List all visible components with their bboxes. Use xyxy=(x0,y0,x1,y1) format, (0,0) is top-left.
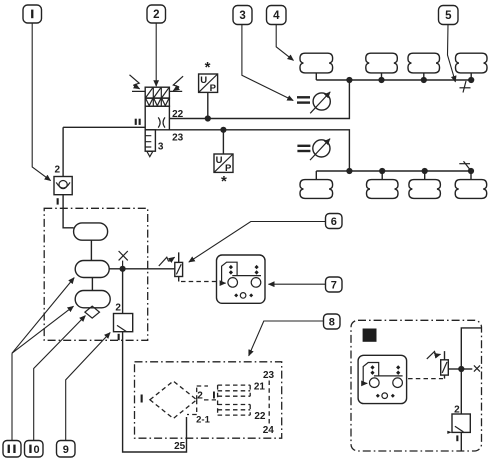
port label 1 of valve 9 xyxy=(118,334,120,340)
bellow reservoir a (item 11) xyxy=(74,223,108,240)
port label 1 of diamond xyxy=(141,395,143,403)
wire: riser to check valve xyxy=(62,127,64,176)
svg-text:22: 22 xyxy=(254,411,266,422)
solenoid valve 6 xyxy=(175,252,183,281)
svg-text:5: 5 xyxy=(445,10,452,22)
silencer 3 under valve 2 xyxy=(145,130,155,157)
wire: port 22 line xyxy=(169,80,349,119)
solenoid valve block 2: pilot band row 1 xyxy=(145,87,169,98)
callout label 11 xyxy=(3,441,21,458)
air spring 4h xyxy=(455,180,487,199)
svg-text:U: U xyxy=(216,155,223,166)
svg-text:2: 2 xyxy=(55,164,61,175)
inset electric dashed link xyxy=(408,378,443,380)
svg-text:U: U xyxy=(200,75,207,86)
wire: bellow a-b stub xyxy=(90,240,92,260)
wire: port 11 line xyxy=(63,126,145,128)
drain connector (lower) xyxy=(459,161,470,170)
svg-text:8: 8 xyxy=(329,317,335,329)
solenoid valve block 2: main body with throttle xyxy=(145,106,169,130)
harness port 2-1 dashes xyxy=(187,400,197,415)
harness port 2 dashes xyxy=(197,386,208,400)
wire: lower manifold xyxy=(316,170,471,172)
leader line 8 xyxy=(249,321,324,356)
pressure sensor U/P (lower) xyxy=(214,154,233,174)
svg-text:3: 3 xyxy=(158,141,164,152)
inset supply wire from border xyxy=(461,328,481,414)
electric dashed link valve6 to control 7 xyxy=(181,281,217,283)
connector ladder (pins) xyxy=(204,385,250,415)
callout label 7 xyxy=(326,277,343,292)
harness connector diamond xyxy=(150,381,197,418)
junction on 22 line xyxy=(205,115,211,121)
inset zigzag arrow xyxy=(427,352,441,359)
air spring 4c xyxy=(408,53,440,73)
inset remote control unit xyxy=(358,355,407,403)
bellow reservoir c xyxy=(75,291,110,308)
wire: junction down to item 9 xyxy=(122,269,124,314)
svg-text:21: 21 xyxy=(254,382,266,393)
leader line 3 xyxy=(242,25,293,101)
wire: check valve to bellows xyxy=(63,195,74,228)
solenoid valve block 2: pilot band row 2 xyxy=(145,98,169,106)
wire: lower sensor stub xyxy=(222,130,224,154)
svg-text:P: P xyxy=(210,83,217,94)
leader line 10 xyxy=(34,316,86,441)
electrical zigzag arrow right of valve 2 xyxy=(173,76,183,91)
port label 11 xyxy=(135,119,141,125)
inset wire valve to junction xyxy=(448,368,461,370)
leader line 5 xyxy=(448,25,456,82)
svg-text:7: 7 xyxy=(331,280,337,292)
air spring 4a xyxy=(300,53,333,73)
wire: upper sensor stub xyxy=(207,92,209,118)
junction on 23 line xyxy=(220,127,226,133)
bellow reservoir b (item 11) xyxy=(75,261,109,278)
junctions lower manifold xyxy=(346,168,352,174)
inset port label 1 xyxy=(456,435,458,441)
inset solenoid valve xyxy=(441,351,449,379)
electrical zigzag arrow left of valve 2 xyxy=(130,75,140,89)
callout label 1 xyxy=(23,5,42,23)
air spring stubs upper xyxy=(316,73,471,80)
callout label 3 xyxy=(233,6,252,25)
svg-text:2: 2 xyxy=(153,9,159,21)
leader line 2 xyxy=(155,23,157,86)
callout label 5 xyxy=(439,6,459,25)
leader line 9 xyxy=(66,333,111,441)
electrical zigzag arrow of valve 6 xyxy=(159,257,175,266)
callout label 9 xyxy=(57,441,76,458)
air spring stubs lower xyxy=(316,171,471,180)
callout label 4 xyxy=(267,6,287,25)
svg-text:*: * xyxy=(205,59,211,76)
air spring 4d xyxy=(456,53,488,73)
port label 1 of check valve xyxy=(57,198,59,204)
svg-text:2: 2 xyxy=(115,303,121,314)
wire: valve 9 to harness port 2-1 (line 25) xyxy=(123,332,187,452)
svg-text:3: 3 xyxy=(239,10,245,22)
svg-text:0: 0 xyxy=(34,444,40,456)
drain connector 5 (upper) xyxy=(460,81,471,93)
leader line 4 xyxy=(276,25,293,61)
junction at bellows line xyxy=(120,266,126,272)
leader line 6 xyxy=(189,222,326,263)
cable harness box 8 (dash-dot) xyxy=(135,362,282,438)
svg-text:2-1: 2-1 xyxy=(196,415,210,426)
svg-text:25: 25 xyxy=(174,441,186,452)
air spring 4f xyxy=(367,180,399,199)
callout label 2 xyxy=(147,5,166,23)
inset enclosure (dash-dot, bottom right) xyxy=(351,320,482,451)
wire: upper manifold xyxy=(316,79,471,81)
air spring 4e xyxy=(300,180,333,199)
air spring 4b xyxy=(366,53,398,73)
drain valve 10 (diamond) xyxy=(85,306,100,318)
inset wire below valve 2 xyxy=(460,432,462,450)
air spring 4g xyxy=(409,180,441,199)
leader line 1 xyxy=(32,23,50,181)
svg-text:23: 23 xyxy=(263,370,275,381)
svg-text:9: 9 xyxy=(63,444,69,456)
leader line 11 (branched) xyxy=(11,353,13,440)
check valve (item 1) xyxy=(54,177,72,195)
svg-text:23: 23 xyxy=(172,133,184,144)
inset junction xyxy=(458,366,464,372)
closed test port X xyxy=(119,251,128,266)
svg-text:6: 6 xyxy=(331,216,337,228)
pressure sensor U/P (upper) xyxy=(199,74,218,94)
wire: bellows to valve 6 xyxy=(109,268,175,270)
svg-text:4: 4 xyxy=(273,10,280,22)
remote control unit 7 xyxy=(217,255,266,303)
test gauge (lower) xyxy=(297,139,330,160)
inset marker: black square xyxy=(363,329,377,342)
wire: port 23 line xyxy=(169,130,349,171)
svg-text:24: 24 xyxy=(263,425,275,436)
inset throttle valve 2 xyxy=(447,414,470,434)
electrical pin bars of valve 2 xyxy=(132,90,182,92)
svg-text:*: * xyxy=(221,173,227,190)
svg-text:2: 2 xyxy=(197,391,203,402)
wire: bellow b-c stub xyxy=(91,278,93,291)
right dashed trunk xyxy=(268,381,270,425)
junctions upper manifold xyxy=(346,77,352,83)
test gauge (upper) xyxy=(297,92,330,113)
throttle valve 9 xyxy=(114,314,133,332)
callout label 10 xyxy=(25,441,44,458)
leader line 7 xyxy=(269,283,326,285)
callout label 8 xyxy=(324,314,341,329)
inset closed port X xyxy=(464,365,481,371)
callout label 6 xyxy=(326,214,343,229)
dash-dot enclosure (vehicle body, left) xyxy=(44,208,148,340)
svg-text:2: 2 xyxy=(454,404,460,415)
